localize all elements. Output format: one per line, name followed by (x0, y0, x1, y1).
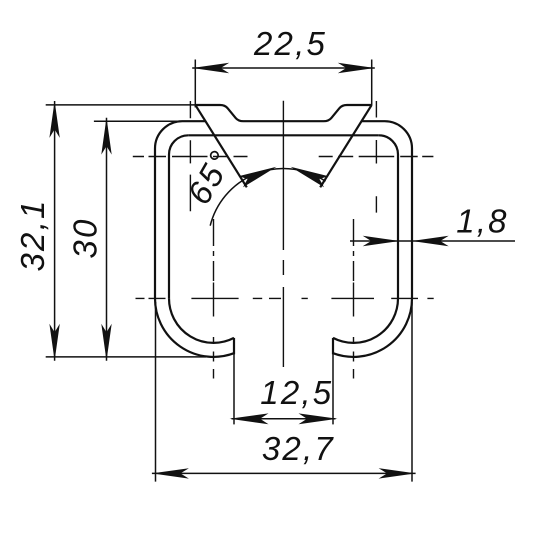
right hook center cross vertical (353, 283, 355, 317)
dim 32,1 top extension line (46, 104, 196, 106)
arrowhead dim 30 bottom (101, 324, 111, 361)
svg-text:12,5: 12,5 (260, 374, 333, 411)
V-groove right slant wall 65deg (320, 105, 372, 187)
bottom-right outer arc (333, 298, 412, 357)
dim 1,8 leader line (350, 240, 515, 242)
right V-mouth dashed line x=376.4 (375, 101, 377, 213)
dim 22,5 left extension line (194, 60, 196, 108)
svg-text:32,1: 32,1 (14, 198, 51, 271)
dim 32,1 bottom extension line (46, 356, 206, 358)
left V-mouth dashed line x=190.4 (189, 101, 191, 211)
arrowhead dim 1,8 left (363, 236, 400, 246)
inner left wall and inner top-left corner (169, 135, 188, 298)
svg-text:32,7: 32,7 (262, 430, 335, 467)
left hook center cross vertical (213, 283, 215, 317)
inner ceiling line (188, 134, 379, 136)
left hook vertical center line (213, 219, 215, 379)
arrowhead dim 32,7 left (152, 468, 189, 478)
dim 22,5 dimension line (192, 67, 375, 69)
profile outer right wall and top-right corner (362, 121, 412, 298)
svg-text:1,8: 1,8 (456, 203, 508, 240)
arrowhead dim 12,5 right (299, 413, 338, 424)
profile outer left wall and top-left corner (155, 121, 205, 298)
dim 30 dimension line (106, 118, 108, 361)
bottom-left inner hook arc (169, 298, 234, 343)
dim 12,5 dimension line (232, 418, 336, 420)
dim 12,5 right extension line (332, 354, 334, 424)
arrowhead dim 30 top (101, 118, 111, 155)
arrowhead dim 1,8 right (412, 236, 449, 246)
arrowhead dim 32,1 top (49, 101, 59, 138)
arrowhead dim 22,5 left (192, 63, 229, 73)
left hook end face (233, 338, 235, 354)
main vertical center line (282, 101, 284, 367)
V-groove left slant wall 65deg (195, 105, 247, 187)
arrowhead angle 65 right (curved) (291, 167, 329, 188)
dim 30 top extension line (94, 120, 183, 122)
bottom-left outer arc (155, 298, 234, 357)
arrowhead dim 22,5 right (338, 63, 375, 73)
right hook vertical center line (353, 219, 355, 379)
dim 32,7 left extension line (155, 302, 157, 482)
dim 32,1 dimension line (54, 101, 56, 361)
angle 65 dimension arc (210, 169, 325, 226)
arrowhead dim 32,1 bottom (49, 324, 59, 361)
right hook end face (332, 338, 334, 354)
horizontal center line y=156.5 (133, 156, 434, 158)
horizontal center line y=298 (136, 297, 434, 299)
hat top outline with chamfers (195, 105, 371, 121)
bottom-right inner hook arc (333, 298, 398, 343)
inner top-right corner and inner right wall (379, 135, 398, 298)
arrowhead dim 12,5 left (230, 413, 269, 424)
dim 12,5 left extension line (233, 354, 235, 424)
dim 32,7 dimension line (152, 472, 416, 474)
arrowhead dim 32,7 right (379, 468, 416, 478)
arrowhead angle 65 left (curved) (238, 167, 276, 188)
dim 32,7 right extension line (411, 302, 413, 482)
svg-text:30: 30 (66, 217, 103, 258)
svg-text:22,5: 22,5 (253, 25, 327, 62)
dim 22,5 right extension line (371, 60, 373, 106)
